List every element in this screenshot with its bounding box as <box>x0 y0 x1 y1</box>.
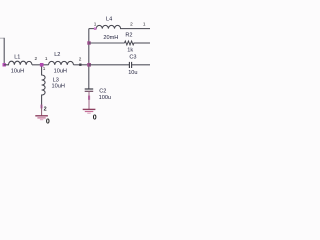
ground 0 under L3 <box>35 115 48 117</box>
pin tip L2.2 <box>79 64 81 66</box>
svg-text:2: 2 <box>130 21 133 26</box>
svg-text:2: 2 <box>44 106 47 112</box>
capacitor C2 <box>85 88 94 90</box>
svg-text:L4: L4 <box>106 17 112 23</box>
pin marker L4.1 <box>94 27 97 30</box>
node junction trunk-bus <box>87 63 91 67</box>
inductor L3 <box>42 67 46 105</box>
svg-text:C2: C2 <box>99 88 106 94</box>
inductor L4 <box>89 25 150 28</box>
svg-text:1: 1 <box>94 21 97 26</box>
gnd stub L3 <box>41 105 43 116</box>
svg-text:0: 0 <box>46 119 50 126</box>
resistor R2 <box>125 41 151 45</box>
svg-text:100u: 100u <box>99 95 111 101</box>
svg-text:20mH: 20mH <box>103 35 118 41</box>
wire R2 row <box>89 42 125 44</box>
svg-text:1k: 1k <box>127 47 133 53</box>
svg-text:2: 2 <box>35 56 38 61</box>
svg-text:10u: 10u <box>128 70 137 76</box>
wire stub from left edge <box>0 37 4 39</box>
wire C2 bottom <box>88 91 90 109</box>
svg-text:L2: L2 <box>54 52 60 58</box>
terminal left <box>3 63 6 66</box>
svg-text:0: 0 <box>93 114 97 121</box>
pin marker L3.2 <box>40 105 42 109</box>
svg-text:1: 1 <box>43 66 46 71</box>
svg-text:1: 1 <box>45 56 48 61</box>
pin marker C2.2 <box>88 96 90 100</box>
capacitor C3 <box>128 62 130 68</box>
node junction trunk-R2 <box>87 41 90 44</box>
inductor L2 <box>49 61 74 64</box>
inductor L1 <box>4 61 32 65</box>
svg-text:10uH: 10uH <box>11 69 24 75</box>
svg-text:1: 1 <box>143 21 146 26</box>
svg-text:L1: L1 <box>14 54 20 60</box>
svg-text:10uH: 10uH <box>54 69 67 75</box>
trunk vertical wire <box>88 29 90 89</box>
node junction J1 <box>40 63 44 67</box>
svg-text:C3: C3 <box>129 55 136 61</box>
wire C3 right <box>132 64 150 66</box>
wire bus L1-L2 <box>32 64 49 66</box>
svg-text:2: 2 <box>79 56 82 61</box>
wire left vertical <box>3 38 5 65</box>
wire bus to C3 <box>89 64 129 66</box>
svg-text:10uH: 10uH <box>52 84 65 90</box>
svg-text:R2: R2 <box>125 33 132 39</box>
wire L2 to trunk <box>74 64 90 66</box>
ground 0 under C2 <box>83 108 96 110</box>
